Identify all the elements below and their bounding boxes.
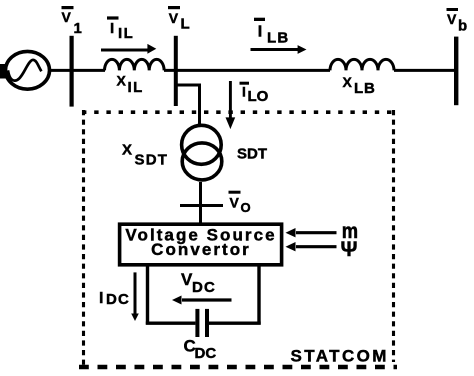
- wire branch from bus VL to transformer: [176, 85, 200, 124]
- svg-text:I: I: [242, 83, 246, 99]
- svg-text:X: X: [343, 74, 353, 90]
- wire transformer to converter: [199, 182, 202, 223]
- label X_IL: [117, 72, 144, 95]
- AC source G1: [0, 51, 50, 89]
- svg-text:DC: DC: [195, 345, 217, 362]
- svg-text:LO: LO: [248, 88, 269, 105]
- converter box U1: [120, 224, 282, 265]
- current arrow I_LB: [251, 45, 307, 54]
- label I_DC: [99, 290, 130, 308]
- control input m: [286, 228, 337, 237]
- svg-text:IL: IL: [128, 79, 144, 96]
- label I_IL: [107, 16, 134, 42]
- label X_SDT: [122, 142, 168, 169]
- svg-text:X: X: [117, 72, 127, 88]
- svg-text:V: V: [447, 11, 457, 27]
- transformer SDT: [182, 125, 222, 180]
- svg-text:b: b: [458, 17, 467, 34]
- svg-text:I: I: [258, 23, 262, 40]
- svg-text:V: V: [230, 195, 240, 211]
- svg-text:LB: LB: [354, 80, 376, 97]
- svg-text:L: L: [181, 16, 190, 33]
- svg-text:Convertor: Convertor: [151, 240, 251, 259]
- svg-text:I: I: [110, 20, 114, 37]
- label C_DC: [184, 336, 217, 362]
- svg-text:LB: LB: [267, 30, 289, 47]
- voltage arrow V_DC: [172, 296, 232, 305]
- svg-text:DC: DC: [192, 279, 216, 296]
- label Vb: [447, 8, 468, 34]
- svg-text:SDT: SDT: [237, 145, 267, 162]
- current arrow I_IL: [101, 44, 156, 54]
- label V1: [62, 6, 82, 37]
- svg-text:V: V: [62, 9, 72, 25]
- control input psi: [286, 242, 337, 251]
- capacitor C_DC: [195, 309, 209, 337]
- label X_LB: [343, 74, 376, 97]
- wire DC bottom right: [209, 322, 261, 325]
- wire DC right: [257, 266, 260, 325]
- svg-text:V: V: [169, 10, 179, 26]
- bus VL: [174, 36, 178, 106]
- wire DC left: [146, 266, 149, 325]
- svg-text:DC: DC: [106, 291, 130, 308]
- node VO tick: [180, 204, 223, 207]
- label I_LO: [240, 82, 269, 105]
- bus V1: [70, 36, 74, 107]
- svg-text:STATCOM: STATCOM: [291, 346, 389, 365]
- STATCOM dashed enclosure: [79, 110, 397, 367]
- inductor X_IL: [105, 59, 165, 70]
- wire main line: [49, 69, 456, 72]
- label VO: [229, 191, 251, 216]
- label I_LB: [254, 18, 289, 47]
- svg-text:1: 1: [74, 20, 82, 37]
- current arrow I_DC: [131, 272, 139, 321]
- svg-text:Ψ: Ψ: [341, 238, 358, 261]
- label VL: [168, 6, 190, 33]
- inductor X_LB: [330, 59, 394, 70]
- svg-text:SDT: SDT: [135, 152, 169, 169]
- svg-text:I: I: [99, 290, 103, 307]
- bus Vb: [454, 37, 458, 106]
- wire DC bottom left: [146, 322, 196, 325]
- svg-text:O: O: [241, 200, 251, 215]
- current arrow I_LO: [226, 81, 236, 129]
- svg-text:IL: IL: [118, 25, 134, 42]
- label V_DC: [181, 270, 216, 296]
- label Voltage Source Convertor: [125, 225, 276, 258]
- svg-text:X: X: [122, 142, 132, 159]
